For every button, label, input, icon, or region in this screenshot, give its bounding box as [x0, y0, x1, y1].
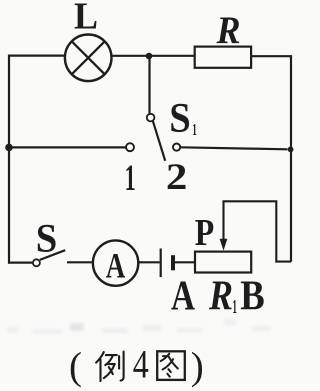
- switch S1 pivot circle: [147, 114, 155, 122]
- wire battery to rheostat R1: [175, 261, 195, 263]
- switch S blade: [40, 250, 65, 260]
- wire left rail vertical: [8, 55, 10, 264]
- wire lamp to resistor R: [112, 55, 195, 57]
- svg-text:B: B: [240, 272, 265, 319]
- glyph 例: [96, 352, 124, 382]
- glyph 图: [157, 351, 185, 380]
- svg-text:(: (: [69, 345, 82, 388]
- wire switch S to ammeter: [67, 261, 93, 263]
- svg-text:R: R: [216, 9, 241, 52]
- wire bottom-left corner to switch S: [8, 262, 33, 264]
- lamp L symbol: [65, 35, 112, 82]
- svg-text:1: 1: [232, 296, 237, 318]
- wire top-left horizontal from left rail to lamp: [8, 54, 65, 56]
- caption (例4图): [69, 341, 204, 388]
- svg-text:A: A: [106, 245, 126, 285]
- wire contact 2 to right rail: [180, 147, 287, 149]
- label S1: [169, 96, 197, 142]
- rheostat R1 body: [195, 252, 251, 273]
- wire left rail to contact 1: [9, 146, 126, 148]
- svg-text:4: 4: [133, 341, 149, 386]
- svg-text:2: 2: [166, 157, 188, 198]
- svg-text:L: L: [74, 0, 98, 38]
- contact 2 terminal circle: [173, 144, 180, 151]
- svg-text:A: A: [171, 272, 195, 319]
- ammeter A circle: [93, 240, 138, 285]
- svg-text:1: 1: [192, 120, 197, 139]
- junction node left rail: [5, 144, 13, 152]
- svg-text:P: P: [195, 212, 215, 254]
- svg-text:): ): [191, 345, 204, 388]
- contact 1 terminal circle: [126, 143, 134, 151]
- resistor R body: [195, 47, 251, 68]
- junction node right rail: [288, 147, 294, 153]
- faint print-through smudges above caption: [7, 319, 270, 334]
- svg-text:S: S: [36, 216, 58, 261]
- slider P arrowhead: [220, 239, 228, 251]
- wire top junction down to switch S1 pivot: [148, 56, 150, 114]
- junction node top (lamp / R / S1): [146, 53, 153, 60]
- svg-text:R: R: [208, 273, 233, 320]
- label R1 (rheostat): [208, 273, 237, 320]
- battery negative plate: [171, 255, 175, 270]
- wire resistor R to right rail, right rail vertical: [251, 56, 291, 262]
- battery positive plate: [160, 249, 162, 278]
- svg-text:1: 1: [125, 158, 136, 199]
- wire slider P loop to right rail: [224, 201, 292, 261]
- switch S terminal circle: [33, 259, 40, 266]
- svg-text:S: S: [169, 96, 191, 142]
- wire ammeter to battery: [138, 261, 159, 263]
- switch S1 blade: [153, 121, 165, 161]
